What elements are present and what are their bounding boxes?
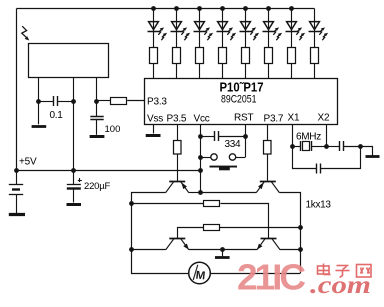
ground U2 pin1: [32, 125, 47, 128]
IR receiver module U2: [29, 44, 109, 78]
resistor R10 P3.5: [174, 141, 182, 155]
svg-text:0.1: 0.1: [50, 110, 64, 121]
node bus junction 6: [266, 6, 271, 11]
resistor R13 lower bridge: [178, 225, 301, 239]
wire LED column 6: [268, 9, 270, 79]
resistor LED 2: [173, 48, 181, 64]
node Vcc-rail junction: [198, 168, 203, 173]
svg-text:Vss: Vss: [147, 114, 163, 125]
svg-text:P3.7: P3.7: [264, 114, 284, 125]
node bridge ground junction: [220, 247, 225, 252]
watermark dianziwang: [318, 264, 372, 278]
svg-text:1kx13: 1kx13: [306, 200, 332, 211]
LED D8: [309, 22, 329, 41]
wire U2 pin3: [96, 77, 98, 116]
motor M1: [189, 262, 211, 284]
node Vcc-C3 junction: [198, 134, 203, 139]
ground C2: [90, 135, 105, 138]
wire Q1 emitter to Vcc node: [189, 192, 200, 194]
svg-text:334: 334: [225, 139, 242, 150]
svg-text:89C2051: 89C2051: [221, 94, 257, 106]
ground battery: [9, 213, 25, 216]
resistor R12 upper bridge: [131, 201, 269, 239]
wire P3.5 to Q1 base: [177, 154, 179, 181]
node upper emitters junction: [198, 190, 203, 195]
wire left border rail: [16, 9, 18, 171]
node U2 pin3 junction: [94, 99, 99, 104]
LED D1: [148, 22, 168, 41]
node U2 pin2 junction: [71, 99, 76, 104]
capacitor C6 220uF: [67, 171, 82, 203]
IR signal arrow: [22, 26, 30, 40]
resistor LED 4: [219, 48, 227, 64]
node bus junction 5: [243, 6, 248, 11]
wire Vcc pin: [200, 124, 202, 193]
ground oscillator: [361, 147, 380, 157]
node right frame mid junction: [298, 225, 303, 230]
svg-text:P10˜P17: P10˜P17: [220, 81, 264, 95]
node bus junction 2: [174, 6, 179, 11]
svg-text:X2: X2: [318, 113, 330, 124]
wire U2 pin2: [73, 77, 75, 170]
transistor Q4: [257, 239, 280, 250]
node bus junction 4: [220, 6, 225, 11]
wire P3.5 pin: [177, 124, 179, 140]
transistor Q3: [166, 239, 189, 250]
resistor R11 P3.7: [264, 141, 272, 155]
wire Q1 collector to left frame: [132, 193, 166, 274]
node bus junction 7: [289, 6, 294, 11]
wire top bus: [17, 8, 315, 10]
wire LED column 7: [291, 9, 293, 79]
wire LED column 4: [222, 9, 224, 79]
wire motor right: [210, 273, 300, 275]
ground Vss: [146, 134, 161, 137]
LED D3: [194, 22, 214, 41]
svg-text:P3.5: P3.5: [167, 114, 187, 125]
crystal Y1: [292, 141, 326, 151]
wire Q4 emitter to ground node: [222, 249, 257, 251]
wire Q4 collector to right frame: [280, 249, 300, 251]
resistor LED 3: [196, 48, 204, 64]
wire Vss pin: [153, 124, 155, 134]
LED D7: [286, 22, 306, 41]
svg-text:+5V: +5V: [19, 157, 37, 168]
resistor LED 1: [150, 48, 158, 64]
resistor LED 7: [288, 48, 296, 64]
wire LED column 8: [314, 9, 316, 79]
wire Q2 collector to right frame: [280, 193, 301, 274]
ground C6: [67, 203, 82, 206]
wire emitters link: [200, 192, 256, 194]
node battery junction: [14, 168, 19, 173]
capacitor C2 100: [90, 117, 103, 135]
resistor LED 5: [242, 48, 250, 64]
resistor LED 6: [265, 48, 273, 64]
svg-text:P3.3: P3.3: [147, 97, 167, 108]
node 220uF junction: [71, 168, 76, 173]
node U2 pin1 junction: [36, 99, 41, 104]
node left frame upper junction: [129, 201, 134, 206]
svg-text:RST: RST: [234, 113, 253, 124]
battery B1: [9, 171, 23, 214]
transistor Q1: [166, 182, 189, 193]
node left frame lower junction: [129, 247, 134, 252]
wire Q3 collector to left frame: [131, 249, 166, 251]
svg-text:21IC: 21IC: [237, 257, 306, 298]
wire X1 pin: [292, 124, 294, 146]
MCU U1 89C2051: [145, 79, 338, 125]
svg-text:X1: X1: [288, 113, 300, 124]
transistor Q2: [256, 182, 279, 193]
LED D2: [171, 22, 191, 41]
resistor LED 8: [311, 48, 319, 64]
LED D6: [263, 22, 283, 41]
svg-text:100: 100: [105, 124, 121, 135]
node right frame lower junction: [298, 247, 303, 252]
node X1 junction: [290, 144, 295, 149]
capacitor C3 334: [200, 131, 246, 141]
svg-text:M: M: [195, 270, 206, 283]
capacitor C4: [293, 147, 361, 174]
node bus junction 1: [151, 6, 156, 11]
wire P3.7 to Q2 base: [267, 154, 269, 181]
wire LED column 2: [176, 9, 178, 79]
wire Q3 emitter to ground node: [189, 249, 222, 251]
wire RST pin: [245, 124, 247, 157]
pushbutton S1: [200, 154, 246, 171]
node bus junction 3: [197, 6, 202, 11]
capacitor C1 0.1: [39, 96, 74, 106]
wire motor left: [131, 273, 189, 275]
wire P3.7 pin: [267, 124, 269, 140]
ground bridge: [215, 250, 230, 258]
LED D5: [240, 22, 260, 41]
svg-text:6MHz: 6MHz: [296, 132, 321, 143]
capacitor C5: [326, 141, 360, 151]
wire LED column 5: [245, 9, 247, 79]
node oscillator ground junction: [358, 144, 363, 149]
node RST junction: [243, 134, 248, 139]
wire X2 pin: [326, 124, 328, 146]
resistor R9 to P3.3: [97, 98, 145, 105]
svg-text:Vcc: Vcc: [194, 114, 210, 125]
LED D4: [217, 22, 237, 41]
node Vcc-button junction: [198, 155, 203, 160]
wire +5V rail: [16, 170, 200, 172]
wire U2 pin1: [38, 77, 40, 124]
wire LED column 3: [199, 9, 201, 79]
node X2 junction: [324, 144, 329, 149]
svg-text:220µF: 220µF: [84, 181, 111, 192]
wire LED column 1: [153, 9, 155, 79]
